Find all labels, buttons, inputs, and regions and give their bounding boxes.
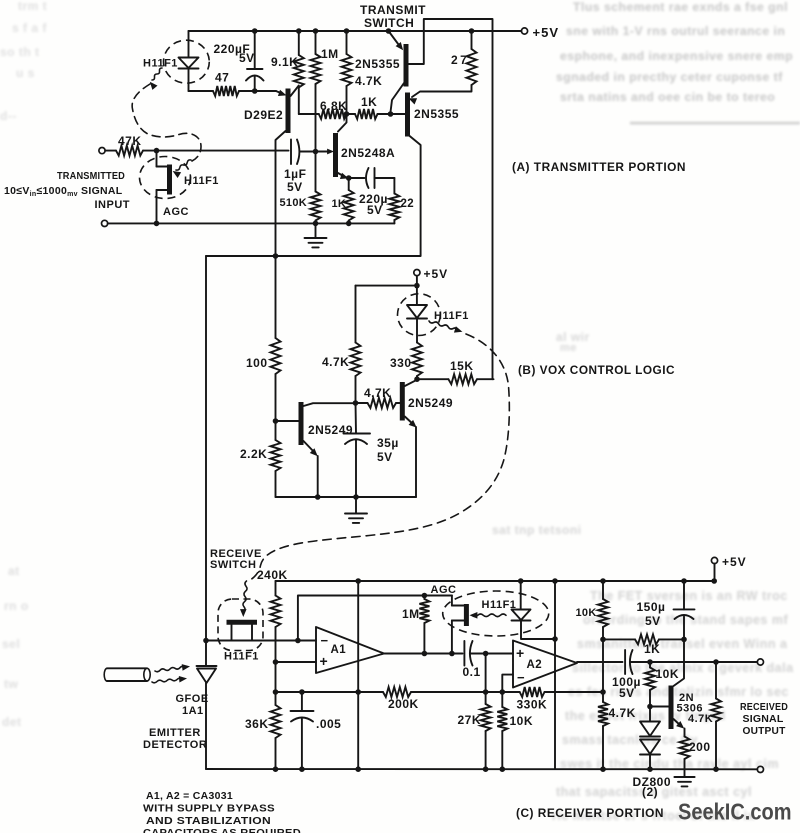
svg-text:2N5355: 2N5355 — [355, 57, 400, 71]
svg-text:2.2K: 2.2K — [240, 447, 267, 461]
svg-text:200K: 200K — [388, 697, 419, 711]
svg-text:5V: 5V — [239, 51, 255, 65]
svg-text:47K: 47K — [118, 134, 142, 148]
svg-text:10K: 10K — [656, 667, 680, 681]
svg-text:1µF: 1µF — [284, 167, 306, 181]
svg-text:H11F1: H11F1 — [224, 651, 259, 663]
svg-text:330: 330 — [390, 356, 412, 370]
svg-text:35µ: 35µ — [377, 436, 399, 450]
svg-text:−: − — [517, 670, 525, 685]
svg-text:10K: 10K — [510, 714, 534, 728]
svg-text:H11F1: H11F1 — [434, 310, 469, 322]
svg-text:6.8K: 6.8K — [320, 99, 347, 113]
svg-text:EMITTER: EMITTER — [149, 727, 201, 739]
svg-text:10≤Vin≤1000mv SIGNAL: 10≤Vin≤1000mv SIGNAL — [4, 185, 123, 198]
svg-text:2N5249: 2N5249 — [308, 423, 353, 437]
svg-text:1K: 1K — [644, 642, 660, 656]
svg-text:TRANSMITTED: TRANSMITTED — [57, 170, 125, 182]
svg-text:510K: 510K — [280, 197, 308, 209]
svg-text:A1, A2 = CA3031: A1, A2 = CA3031 — [146, 790, 233, 802]
svg-text:A1: A1 — [331, 644, 347, 656]
svg-text:SIGNAL: SIGNAL — [743, 714, 784, 725]
svg-text:SWITCH: SWITCH — [364, 16, 414, 30]
svg-text:150µ: 150µ — [637, 600, 666, 614]
svg-text:(B) VOX CONTROL LOGIC: (B) VOX CONTROL LOGIC — [518, 363, 675, 377]
svg-text:(A) TRANSMITTER PORTION: (A) TRANSMITTER PORTION — [512, 160, 686, 174]
svg-text:1K: 1K — [332, 198, 347, 210]
svg-text:(2): (2) — [642, 785, 658, 799]
svg-text:200: 200 — [689, 740, 711, 754]
svg-text:4.7K: 4.7K — [364, 386, 391, 400]
svg-text:CAPACITORS AS REQUIRED: CAPACITORS AS REQUIRED — [143, 827, 301, 833]
svg-text:10K: 10K — [576, 607, 597, 619]
svg-text:+5V: +5V — [424, 267, 449, 281]
svg-text:TRANSMIT: TRANSMIT — [360, 3, 426, 17]
svg-text:240K: 240K — [257, 568, 288, 582]
svg-text:+5V: +5V — [533, 25, 560, 40]
svg-text:0.1: 0.1 — [463, 665, 481, 679]
svg-text:1K: 1K — [361, 95, 377, 109]
svg-text:(C) RECEIVER PORTION: (C) RECEIVER PORTION — [516, 806, 664, 820]
svg-text:22: 22 — [401, 198, 414, 210]
svg-text:DETECTOR: DETECTOR — [143, 739, 207, 751]
svg-text:27: 27 — [451, 53, 469, 67]
svg-text:100: 100 — [246, 356, 268, 370]
svg-text:330K: 330K — [517, 698, 548, 712]
svg-text:2N5355: 2N5355 — [414, 107, 459, 121]
svg-text:−: − — [321, 633, 329, 648]
svg-text:+: + — [320, 653, 329, 669]
svg-text:4.7K: 4.7K — [355, 74, 382, 88]
svg-text:+: + — [516, 645, 525, 661]
svg-text:2N5248A: 2N5248A — [341, 146, 395, 160]
svg-text:WITH SUPPLY BYPASS: WITH SUPPLY BYPASS — [143, 803, 275, 815]
svg-text:15K: 15K — [450, 359, 474, 373]
svg-text:+5V: +5V — [722, 555, 747, 569]
svg-text:5V: 5V — [619, 686, 635, 700]
svg-text:1M: 1M — [321, 47, 339, 61]
svg-text:.005: .005 — [316, 717, 341, 731]
svg-text:9.1K: 9.1K — [271, 55, 298, 69]
svg-text:A2: A2 — [527, 659, 543, 671]
svg-text:27K: 27K — [458, 713, 482, 727]
svg-text:D29E2: D29E2 — [244, 108, 283, 122]
svg-text:5V: 5V — [287, 180, 303, 194]
svg-text:SeekIC.com: SeekIC.com — [678, 799, 792, 825]
svg-text:H11F1: H11F1 — [482, 599, 517, 611]
svg-text:INPUT: INPUT — [95, 199, 131, 211]
svg-text:4.7K: 4.7K — [688, 713, 713, 725]
svg-text:4.7K: 4.7K — [609, 706, 636, 720]
svg-text:AND STABILIZATION: AND STABILIZATION — [146, 815, 271, 827]
svg-text:1A1: 1A1 — [182, 705, 204, 717]
svg-text:SWITCH: SWITCH — [210, 559, 256, 571]
svg-text:AGC: AGC — [431, 584, 457, 596]
svg-text:GFOE: GFOE — [176, 693, 209, 705]
svg-text:OUTPUT: OUTPUT — [743, 726, 787, 737]
svg-text:1M: 1M — [402, 607, 420, 621]
svg-text:RECEIVED: RECEIVED — [740, 702, 788, 713]
svg-text:5V: 5V — [377, 450, 393, 464]
svg-text:2N5249: 2N5249 — [408, 396, 453, 410]
svg-text:5V: 5V — [645, 614, 661, 628]
svg-text:AGC: AGC — [163, 206, 189, 218]
svg-text:4.7K: 4.7K — [322, 355, 349, 369]
svg-text:47: 47 — [215, 71, 229, 85]
svg-text:36K: 36K — [245, 717, 269, 731]
svg-text:5V: 5V — [367, 203, 383, 217]
